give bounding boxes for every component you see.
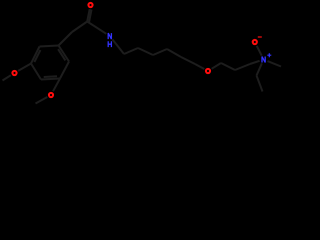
bond C5-C6 (60, 62, 69, 79)
bond c6-O_e (195, 64, 204, 69)
bond2 C4-C5 (44, 75, 57, 78)
bond d2-d3 (235, 64, 250, 70)
bond C7-C8 (40, 46, 59, 47)
atom O_m (253, 40, 257, 44)
atom O_c (88, 3, 92, 7)
bond C4-C5 (41, 79, 60, 80)
charge plus on N (267, 53, 271, 57)
bond Cc-N_am (87, 22, 106, 34)
bond2 C6-C7 (58, 49, 65, 60)
bond C8-C3 (31, 47, 40, 64)
atom O1 (12, 71, 16, 75)
bond c5-c6 (181, 57, 195, 64)
atom O2 (49, 93, 53, 97)
bond c3-c4 (153, 49, 167, 55)
bond c4-c5 (167, 49, 181, 57)
atom N_am (108, 33, 111, 39)
bond Cc-O_c (87, 9, 90, 21)
bond c2-c3 (138, 48, 153, 55)
bond C3-O1 (18, 64, 31, 71)
bond O_e-d1 (212, 63, 221, 69)
bond N_am-c1 (112, 39, 124, 54)
bond d1-d2 (221, 63, 235, 70)
bond C6-C7 (59, 46, 70, 62)
atom O_e (206, 69, 210, 73)
bond C7-CH2a (59, 32, 73, 46)
bond N_p-meB (268, 61, 282, 66)
bond meA-etA (257, 76, 263, 92)
bond d3-N_p (250, 61, 260, 64)
bond N_p-O_m (257, 46, 262, 56)
bond C3-C4 (31, 64, 41, 80)
atom N_p (262, 57, 265, 63)
bond O2-me2 (36, 97, 48, 104)
bond CH2a-Cc (72, 22, 87, 33)
bond C5-O2 (53, 79, 60, 92)
bond2 Cc-O_c (89, 10, 91, 22)
bond O1-me1 (3, 75, 11, 80)
amide H (108, 41, 111, 47)
bond c1-c2 (124, 48, 138, 54)
bond2 C8-C3 (34, 50, 40, 62)
bond N_p-meA (257, 63, 262, 75)
charge minus on O (258, 36, 262, 38)
